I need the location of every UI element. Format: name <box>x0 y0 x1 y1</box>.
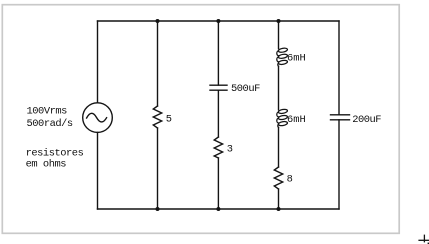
svg-text:100Vrms: 100Vrms <box>27 105 68 117</box>
wire branch 2 bottom <box>217 158 219 209</box>
node dot bottom C <box>277 207 281 211</box>
wire branch 4 top <box>338 21 340 115</box>
wire between inductors <box>278 66 280 110</box>
svg-text:em ohms: em ohms <box>26 159 67 171</box>
source V1 sine wave <box>87 113 107 122</box>
cursor corner mark <box>428 243 429 244</box>
source V1 circle <box>83 103 113 133</box>
wire left top (source to top rail) <box>97 21 99 103</box>
wire branch R5 top <box>157 21 159 106</box>
wire capacitor C1 to resistor R3 <box>217 90 219 137</box>
node dot top A <box>156 19 160 23</box>
svg-text:5: 5 <box>166 114 172 126</box>
wire inductor L2 to resistor R8 <box>278 127 280 167</box>
wire top rail <box>98 20 340 22</box>
svg-text:500rad/s: 500rad/s <box>27 118 73 130</box>
capacitor C2 200uF <box>331 115 350 120</box>
svg-text:8: 8 <box>287 174 293 186</box>
inductor L2 6mH <box>277 109 288 128</box>
wire bottom rail <box>98 208 340 210</box>
svg-text:6mH: 6mH <box>287 114 306 126</box>
resistor R5 <box>153 106 161 128</box>
wire branch 2 top <box>217 21 219 85</box>
svg-text:3: 3 <box>227 144 233 156</box>
svg-text:resistores: resistores <box>26 147 84 159</box>
node dot top B <box>216 19 220 23</box>
svg-text:6mH: 6mH <box>287 53 306 65</box>
node dot bottom A <box>156 207 160 211</box>
node dot top C <box>277 19 281 23</box>
resistor R8 <box>274 167 282 189</box>
resistor R3 <box>214 137 222 158</box>
svg-text:500uF: 500uF <box>231 83 260 95</box>
cursor crosshair <box>418 235 429 243</box>
node dot bottom B <box>216 207 220 211</box>
svg-text:200uF: 200uF <box>352 114 381 126</box>
inductor L1 6mH <box>277 48 288 67</box>
wire branch R5 bottom <box>157 128 159 209</box>
wire left bottom (source to bottom rail) <box>97 132 99 209</box>
wire branch 3 top <box>278 21 280 49</box>
capacitor C1 500uF <box>210 85 227 90</box>
wire branch 4 bottom <box>338 120 340 209</box>
wire branch 3 bottom <box>278 189 280 209</box>
